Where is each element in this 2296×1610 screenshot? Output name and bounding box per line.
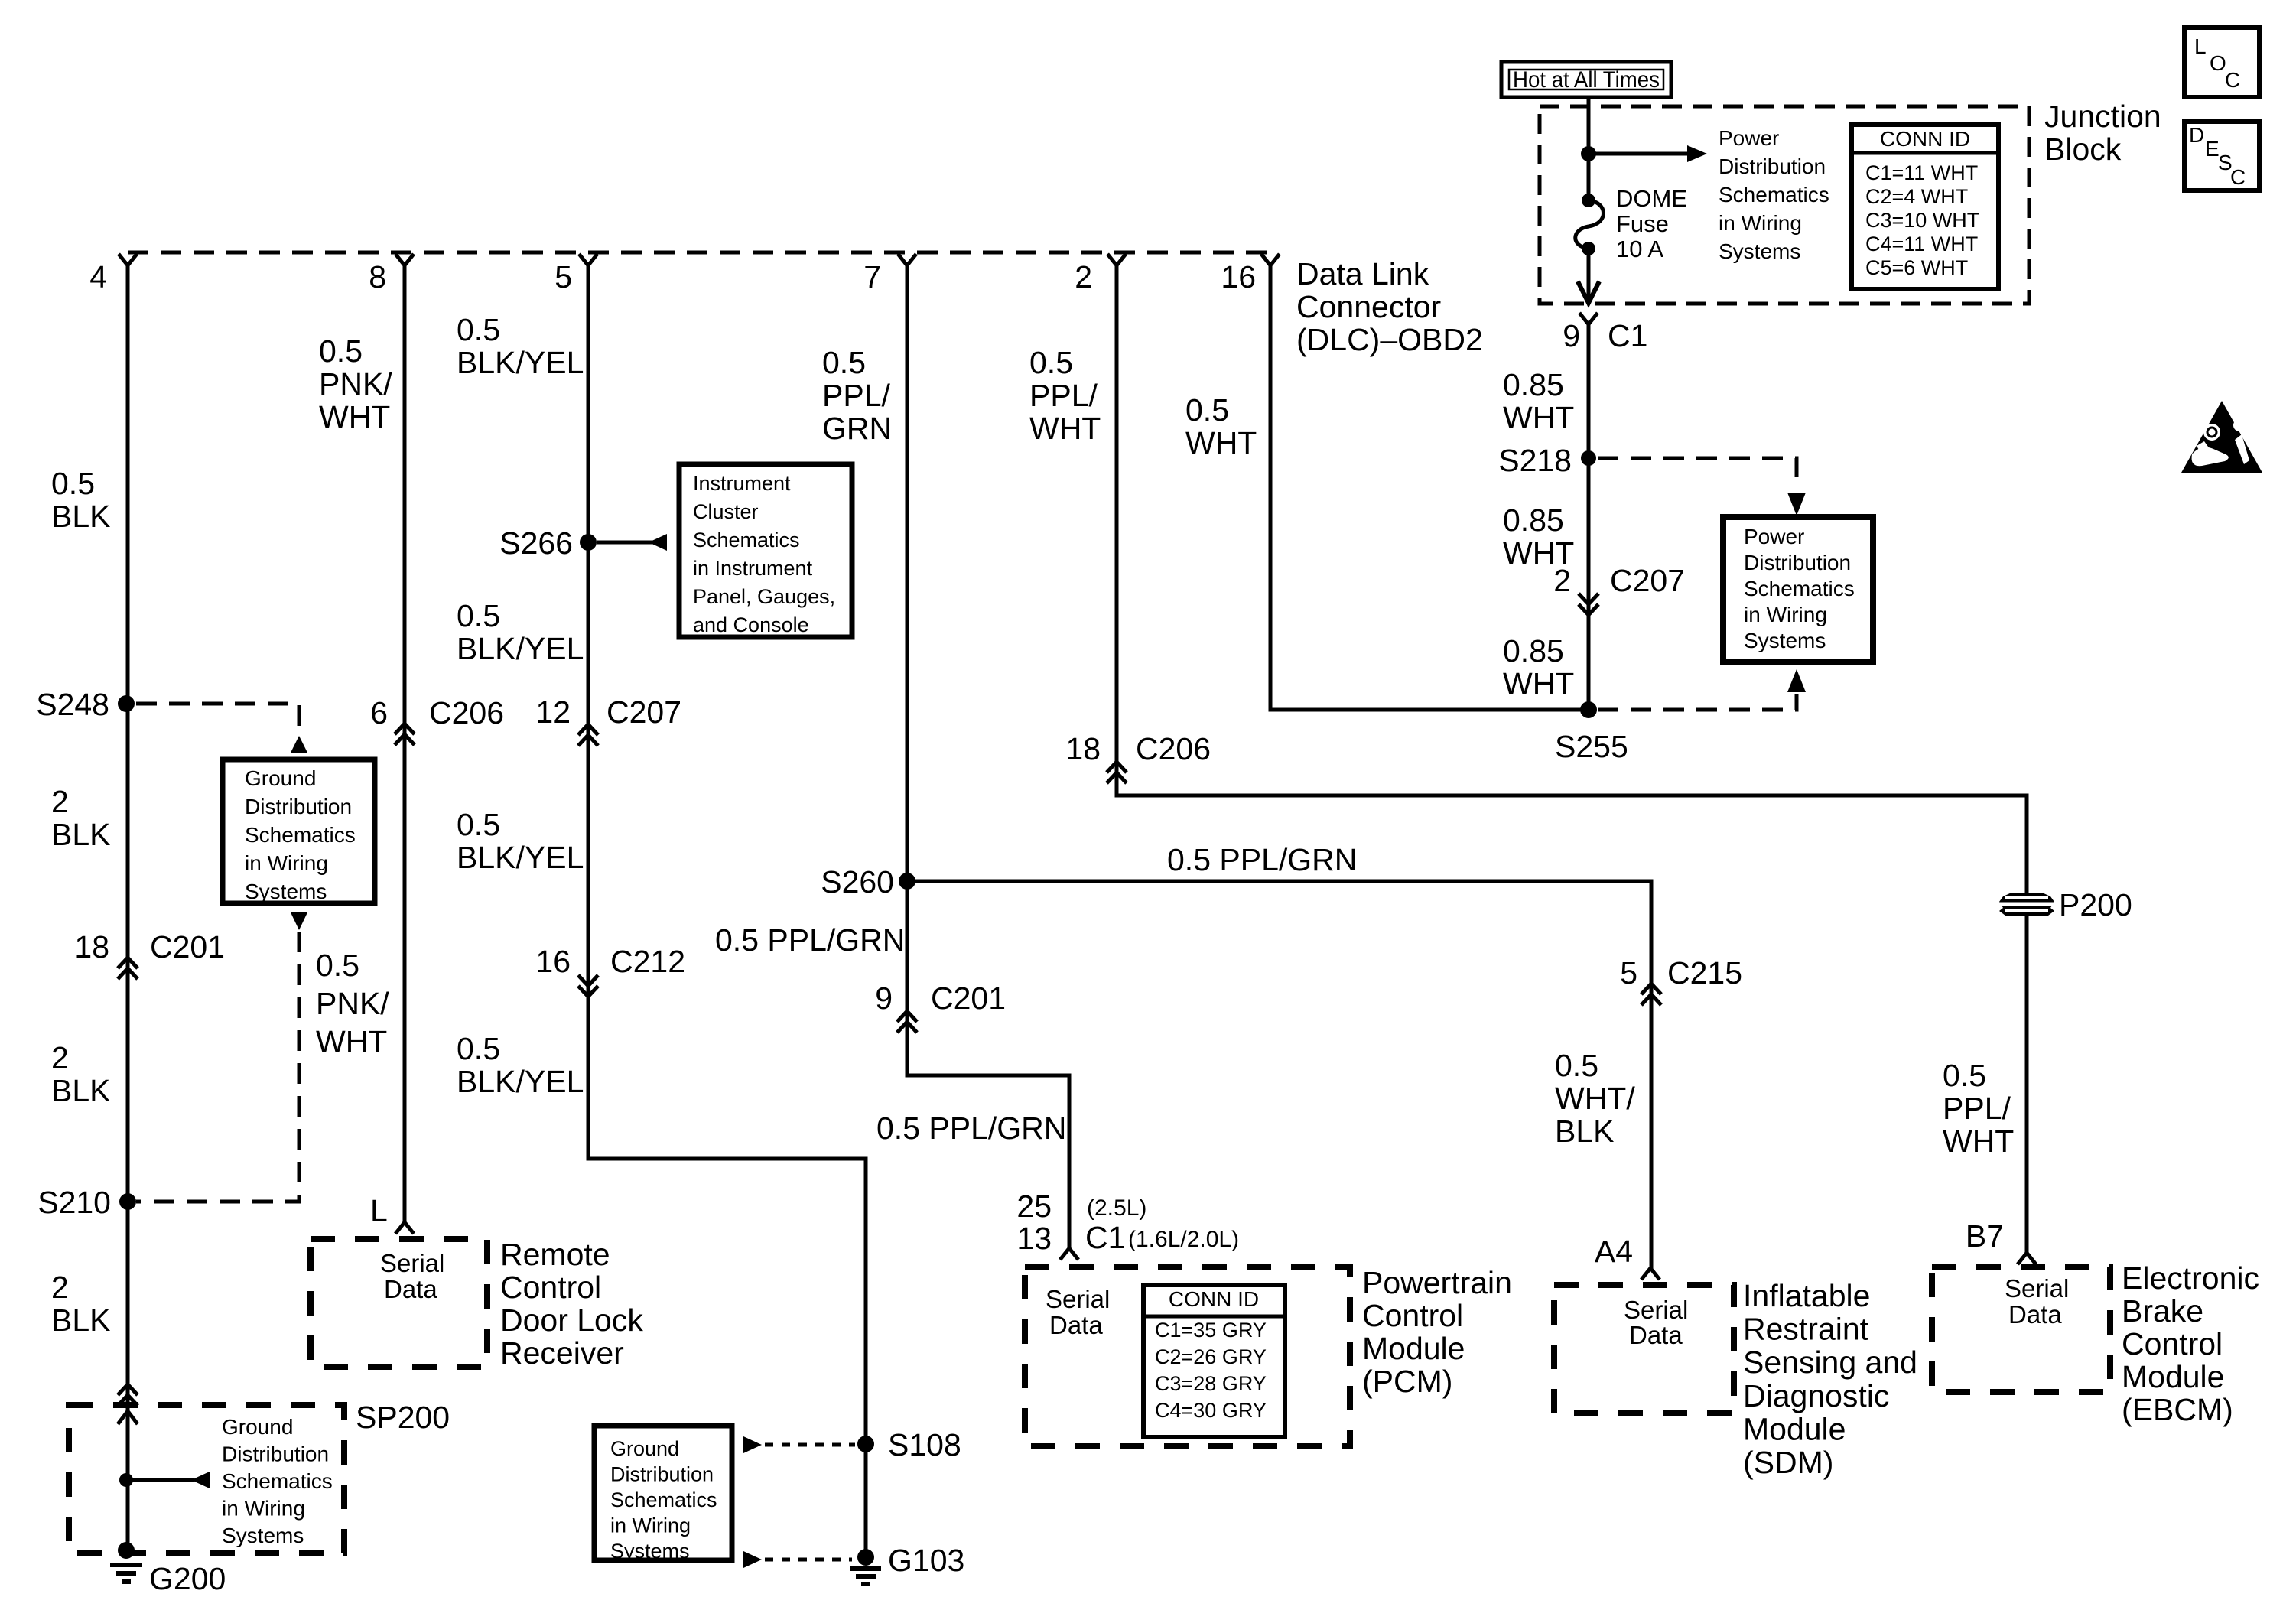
svg-text:in Wiring: in Wiring	[1719, 211, 1802, 235]
svg-text:Connector: Connector	[1296, 289, 1441, 324]
svg-text:WHT: WHT	[319, 399, 390, 434]
svg-text:Inflatable: Inflatable	[1743, 1278, 1870, 1313]
connector C206 pin 6 chevron	[395, 724, 415, 734]
table CONN ID (junction block)	[1852, 125, 1998, 289]
svg-text:C206: C206	[429, 695, 504, 730]
svg-text:C2=26 GRY: C2=26 GRY	[1155, 1345, 1267, 1368]
svg-text:2: 2	[1075, 259, 1092, 294]
svg-text:(PCM): (PCM)	[1362, 1364, 1452, 1399]
arrow ref to G103	[743, 1551, 762, 1568]
svg-text:BLK: BLK	[51, 817, 111, 852]
node DLC pin 4 fork	[119, 254, 137, 265]
svg-text:C201: C201	[150, 929, 225, 964]
arrow into power distribution box	[1787, 493, 1806, 516]
svg-text:2: 2	[51, 1040, 69, 1075]
svg-text:2: 2	[51, 1270, 69, 1305]
svg-text:18: 18	[1065, 731, 1101, 766]
svg-text:(2.5L): (2.5L)	[1087, 1195, 1146, 1221]
svg-text:0.5: 0.5	[457, 312, 500, 347]
node S260 splice	[899, 873, 915, 890]
svg-text:Schematics: Schematics	[1719, 183, 1829, 207]
connector C212 pin 16 chevron	[578, 975, 598, 986]
svg-text:SP200: SP200	[356, 1400, 450, 1435]
svg-text:(1.6L/2.0L): (1.6L/2.0L)	[1128, 1227, 1239, 1252]
svg-text:Restraint: Restraint	[1743, 1312, 1869, 1347]
svg-text:WHT/: WHT/	[1555, 1081, 1635, 1116]
connector C201 pin 18 chevron	[118, 958, 138, 968]
svg-text:(DLC)–OBD2: (DLC)–OBD2	[1296, 322, 1483, 357]
svg-text:Power: Power	[1719, 126, 1779, 150]
node S108 splice	[857, 1436, 874, 1452]
svg-text:Hot at All Times: Hot at All Times	[1513, 67, 1660, 93]
table CONN ID (PCM)	[1143, 1285, 1285, 1437]
svg-text:Electronic: Electronic	[2122, 1260, 2259, 1296]
svg-text:C5=6 WHT: C5=6 WHT	[1865, 256, 1968, 279]
svg-text:S248: S248	[36, 687, 109, 722]
svg-text:0.5 PPL/GRN: 0.5 PPL/GRN	[715, 922, 905, 958]
svg-text:G200: G200	[149, 1561, 226, 1596]
svg-text:Remote: Remote	[500, 1237, 610, 1272]
svg-text:C: C	[2225, 68, 2240, 92]
svg-text:13: 13	[1016, 1221, 1052, 1256]
svg-text:Module: Module	[2122, 1359, 2224, 1394]
svg-text:BLK/YEL: BLK/YEL	[457, 345, 584, 380]
svg-text:C1=11 WHT: C1=11 WHT	[1865, 161, 1978, 184]
svg-text:B7: B7	[1966, 1218, 2004, 1254]
svg-text:C3=10 WHT: C3=10 WHT	[1865, 209, 1979, 232]
svg-text:C207: C207	[1610, 563, 1685, 598]
node S248 splice	[118, 695, 135, 712]
box Instrument Cluster Schematics	[679, 464, 852, 637]
svg-text:BLK/YEL: BLK/YEL	[457, 840, 584, 875]
svg-text:Block: Block	[2044, 132, 2122, 167]
svg-text:C1=35 GRY: C1=35 GRY	[1155, 1319, 1267, 1342]
box Junction Block (dashed)	[1540, 106, 2029, 304]
connector C207 pin 12 chevron	[578, 724, 598, 735]
svg-text:WHT: WHT	[1029, 411, 1101, 446]
wire dashed S248 to ground-distribution box	[136, 704, 299, 734]
wire pin4 BLK vertical	[126, 265, 130, 1550]
svg-text:2: 2	[1553, 563, 1571, 598]
svg-text:Powertrain: Powertrain	[1362, 1265, 1512, 1300]
svg-text:Distribution: Distribution	[1744, 551, 1851, 574]
wire S260 to SDM	[915, 881, 1651, 1268]
svg-text:in Instrument: in Instrument	[693, 557, 813, 580]
wire trunk C1 to S255	[1587, 324, 1591, 710]
connector C215 pin 5 chevron	[1641, 984, 1661, 994]
node DLC pin 5 fork	[579, 254, 597, 265]
svg-text:PPL/: PPL/	[1943, 1091, 2011, 1126]
svg-text:C212: C212	[610, 944, 685, 979]
arrow down at junction block exit	[1578, 281, 1599, 303]
svg-text:4: 4	[89, 259, 107, 294]
svg-text:C2=4 WHT: C2=4 WHT	[1865, 185, 1968, 208]
svg-text:8: 8	[369, 259, 386, 294]
svg-text:Ground: Ground	[610, 1437, 679, 1460]
connector C201 pin 9 chevron	[897, 1011, 917, 1022]
node DLC pin 16 fork	[1261, 254, 1280, 265]
svg-text:6: 6	[370, 695, 388, 730]
svg-text:Fuse: Fuse	[1616, 210, 1669, 237]
svg-text:S108: S108	[888, 1427, 961, 1462]
ground G200 symbol	[118, 1542, 135, 1559]
svg-text:in Wiring: in Wiring	[610, 1514, 691, 1537]
svg-text:Data: Data	[384, 1275, 437, 1303]
svg-text:Schematics: Schematics	[693, 529, 800, 551]
fuse DOME 10A	[1582, 194, 1595, 207]
svg-text:Junction: Junction	[2044, 99, 2161, 134]
svg-text:0.5: 0.5	[316, 948, 359, 983]
svg-text:Serial: Serial	[1046, 1285, 1110, 1313]
svg-text:Control: Control	[500, 1270, 601, 1305]
connector C1 pin 9 fork	[1579, 313, 1598, 324]
svg-text:Systems: Systems	[222, 1524, 304, 1547]
wire battery feed into junction block	[1587, 97, 1591, 200]
svg-text:0.5: 0.5	[457, 807, 500, 842]
svg-text:0.85: 0.85	[1503, 503, 1564, 538]
wire: DLC dashed connector line	[128, 251, 1270, 255]
svg-text:WHT: WHT	[316, 1024, 387, 1059]
svg-text:C4=11 WHT: C4=11 WHT	[1865, 233, 1978, 255]
box PCM Serial Data (dashed)	[1025, 1267, 1350, 1446]
component P200 grommet	[1999, 893, 2054, 916]
svg-text:Ground: Ground	[245, 766, 316, 790]
svg-text:0.5: 0.5	[51, 466, 95, 501]
svg-text:9: 9	[1563, 318, 1580, 353]
node S210 splice	[119, 1193, 136, 1210]
svg-text:Systems: Systems	[1719, 239, 1800, 263]
svg-text:G103: G103	[888, 1543, 964, 1578]
svg-text:L: L	[2194, 34, 2207, 58]
svg-text:BLK: BLK	[51, 1303, 111, 1338]
node PCM entry fork	[1060, 1248, 1078, 1260]
svg-text:Distribution: Distribution	[245, 795, 352, 818]
wire pin2 vertical to EBCM	[1117, 265, 2027, 1253]
svg-text:BLK: BLK	[51, 499, 111, 534]
svg-text:Power: Power	[1744, 525, 1804, 548]
svg-text:C207: C207	[607, 694, 681, 730]
svg-text:5: 5	[1620, 955, 1637, 990]
connector SP200 entry chevron	[118, 1384, 138, 1395]
svg-text:CONN ID: CONN ID	[1880, 127, 1970, 151]
svg-text:BLK: BLK	[51, 1073, 111, 1108]
svg-text:BLK: BLK	[1555, 1114, 1615, 1149]
svg-text:in Wiring: in Wiring	[245, 851, 328, 875]
node junction feed dot	[1581, 146, 1596, 161]
wire dashed S255 to power distribution box	[1598, 694, 1797, 710]
box Hot at All Times	[1501, 62, 1671, 97]
box Ground Distribution Schematics (bottom)	[594, 1426, 732, 1560]
arrow instrument cluster ref	[649, 534, 667, 551]
box SP200 splice pack (dashed)	[69, 1405, 344, 1553]
wire dashed to S108	[765, 1443, 855, 1447]
svg-text:P200: P200	[2059, 887, 2132, 922]
svg-text:in Wiring: in Wiring	[1744, 603, 1827, 626]
svg-text:Schematics: Schematics	[610, 1488, 717, 1511]
box Power Distribution Schematics (right)	[1723, 517, 1873, 662]
svg-text:C1: C1	[1085, 1220, 1125, 1255]
connector C207 pin 2 chevron	[1579, 594, 1598, 604]
svg-text:0.5: 0.5	[822, 345, 866, 380]
svg-text:0.5: 0.5	[457, 1031, 500, 1066]
svg-text:0.5 PPL/GRN: 0.5 PPL/GRN	[1167, 842, 1357, 877]
svg-text:Module: Module	[1743, 1411, 1846, 1446]
svg-text:7: 7	[863, 259, 881, 294]
arrow into ground distribution box	[291, 736, 307, 753]
arrow out of ground distribution box	[291, 912, 307, 930]
svg-text:C: C	[2230, 165, 2246, 189]
connector C206 pin 18 chevron	[1107, 762, 1127, 772]
svg-text:10 A: 10 A	[1616, 236, 1663, 262]
wire S266 to instrument cluster ref	[597, 541, 654, 545]
wire pin8 vertical	[403, 265, 407, 1222]
svg-text:(SDM): (SDM)	[1743, 1445, 1833, 1480]
wire dashed S218 to power distribution box	[1598, 458, 1797, 488]
svg-text:S210: S210	[37, 1185, 111, 1220]
svg-text:Serial: Serial	[380, 1249, 444, 1277]
box Ground Distribution Schematics (upper left)	[223, 759, 375, 903]
svg-text:S260: S260	[821, 864, 894, 899]
svg-text:E: E	[2205, 137, 2220, 161]
box EBCM Serial Data (dashed)	[1932, 1267, 2110, 1392]
svg-text:0.5: 0.5	[1943, 1058, 1986, 1093]
svg-text:0.5: 0.5	[457, 598, 500, 633]
box LOC	[2184, 28, 2259, 97]
node DLC pin 2 fork	[1107, 254, 1126, 265]
svg-text:0.5: 0.5	[1185, 392, 1229, 428]
svg-text:WHT: WHT	[1185, 425, 1257, 460]
svg-text:12: 12	[535, 694, 571, 730]
svg-text:Data: Data	[2008, 1300, 2062, 1329]
svg-text:C201: C201	[931, 981, 1006, 1016]
svg-text:BLK/YEL: BLK/YEL	[457, 631, 584, 666]
svg-text:0.85: 0.85	[1503, 633, 1564, 668]
svg-text:C4=30 GRY: C4=30 GRY	[1155, 1399, 1267, 1422]
svg-text:0.5 PPL/GRN: 0.5 PPL/GRN	[876, 1111, 1066, 1146]
svg-text:Ground: Ground	[222, 1415, 293, 1439]
svg-text:Distribution: Distribution	[222, 1442, 329, 1466]
box Serial Data (remote receiver, dashed)	[311, 1239, 487, 1367]
svg-text:(EBCM): (EBCM)	[2122, 1392, 2233, 1427]
svg-text:O: O	[2210, 51, 2226, 75]
svg-text:D: D	[2189, 123, 2204, 147]
wire branch to power distribution ref	[1589, 152, 1690, 156]
svg-text:Serial: Serial	[2005, 1274, 2069, 1303]
svg-text:L: L	[370, 1193, 388, 1228]
svg-text:0.85: 0.85	[1503, 367, 1564, 402]
svg-text:Brake: Brake	[2122, 1293, 2203, 1329]
arrow up inside SP200	[118, 1411, 138, 1424]
svg-text:PNK/: PNK/	[319, 366, 392, 402]
svg-text:PPL/: PPL/	[1029, 378, 1098, 413]
icon SIR warning triangle	[2181, 401, 2262, 473]
node S218 splice	[1581, 450, 1596, 466]
wire pin5 vertical + to S108/G103	[588, 265, 866, 1557]
node DLC pin 8 fork	[395, 254, 414, 265]
svg-text:16: 16	[1221, 259, 1256, 294]
svg-text:Receiver: Receiver	[500, 1335, 624, 1371]
wire fuse to C1	[1587, 249, 1591, 303]
node DLC pin 7 fork	[898, 254, 916, 265]
svg-text:9: 9	[875, 981, 893, 1016]
wire pin16 to S255	[1270, 265, 1589, 710]
node splice junction inside SP200	[119, 1473, 133, 1487]
svg-text:WHT: WHT	[1503, 400, 1574, 435]
wire dashed to G103	[765, 1558, 852, 1562]
svg-text:PNK/: PNK/	[316, 986, 389, 1021]
svg-text:Systems: Systems	[610, 1540, 690, 1563]
svg-text:BLK/YEL: BLK/YEL	[457, 1064, 584, 1099]
arrow reference (left) in SP200	[191, 1472, 210, 1488]
svg-text:GRN: GRN	[822, 411, 892, 446]
svg-text:0.5: 0.5	[319, 333, 363, 369]
wire dashed ground box to S210	[136, 932, 299, 1202]
svg-text:Distribution: Distribution	[610, 1463, 714, 1486]
svg-text:0.5: 0.5	[1029, 345, 1073, 380]
svg-text:16: 16	[535, 944, 571, 979]
arrow ref to S108	[743, 1436, 762, 1453]
arrow power distribution ref	[1687, 145, 1707, 162]
svg-text:C206: C206	[1136, 731, 1211, 766]
svg-text:Data Link: Data Link	[1296, 256, 1429, 291]
svg-text:Schematics: Schematics	[245, 823, 356, 847]
svg-text:0.5: 0.5	[1555, 1048, 1598, 1083]
svg-text:A4: A4	[1595, 1234, 1633, 1269]
svg-text:Schematics: Schematics	[222, 1469, 333, 1493]
svg-text:Distribution: Distribution	[1719, 154, 1826, 178]
box SDM Serial Data (dashed)	[1554, 1285, 1734, 1413]
svg-text:2: 2	[51, 784, 69, 819]
svg-text:and Console: and Console	[693, 613, 809, 636]
svg-text:Diagnostic: Diagnostic	[1743, 1378, 1889, 1413]
svg-text:Control: Control	[2122, 1326, 2223, 1361]
svg-text:Control: Control	[1362, 1298, 1463, 1333]
svg-text:WHT: WHT	[1503, 666, 1574, 701]
arrow up into power distribution box	[1787, 669, 1806, 692]
svg-text:S255: S255	[1555, 729, 1628, 764]
svg-text:Sensing and: Sensing and	[1743, 1345, 1917, 1380]
svg-text:25: 25	[1016, 1189, 1052, 1224]
svg-text:Panel, Gauges,: Panel, Gauges,	[693, 585, 835, 608]
node S255 splice	[1580, 701, 1597, 718]
svg-text:Data: Data	[1049, 1311, 1103, 1339]
svg-text:S266: S266	[499, 525, 573, 561]
svg-text:Instrument: Instrument	[693, 472, 791, 495]
svg-text:Cluster: Cluster	[693, 500, 759, 523]
svg-text:5: 5	[554, 259, 572, 294]
wire pin7 vertical to PCM	[907, 265, 1069, 1248]
svg-text:18: 18	[74, 929, 109, 964]
svg-text:C1: C1	[1608, 318, 1647, 353]
svg-text:Data: Data	[1629, 1321, 1683, 1349]
svg-text:Serial: Serial	[1624, 1296, 1688, 1324]
svg-text:CONN ID: CONN ID	[1169, 1287, 1259, 1311]
node S266 splice	[580, 534, 597, 551]
svg-text:Systems: Systems	[1744, 629, 1826, 652]
svg-text:DOME: DOME	[1616, 185, 1687, 212]
svg-text:Schematics: Schematics	[1744, 577, 1855, 600]
svg-text:Module: Module	[1362, 1331, 1465, 1366]
svg-text:C215: C215	[1667, 955, 1742, 990]
svg-text:PPL/: PPL/	[822, 378, 890, 413]
svg-text:C3=28 GRY: C3=28 GRY	[1155, 1372, 1267, 1395]
ground G103 symbol	[857, 1549, 874, 1566]
svg-text:Door Lock: Door Lock	[500, 1303, 643, 1338]
wire to ground-distribution reference	[126, 1478, 194, 1482]
svg-text:Systems: Systems	[245, 880, 327, 903]
svg-text:in Wiring: in Wiring	[222, 1497, 305, 1521]
svg-text:S218: S218	[1498, 443, 1572, 478]
box DESC	[2184, 122, 2259, 190]
svg-text:WHT: WHT	[1943, 1124, 2014, 1159]
